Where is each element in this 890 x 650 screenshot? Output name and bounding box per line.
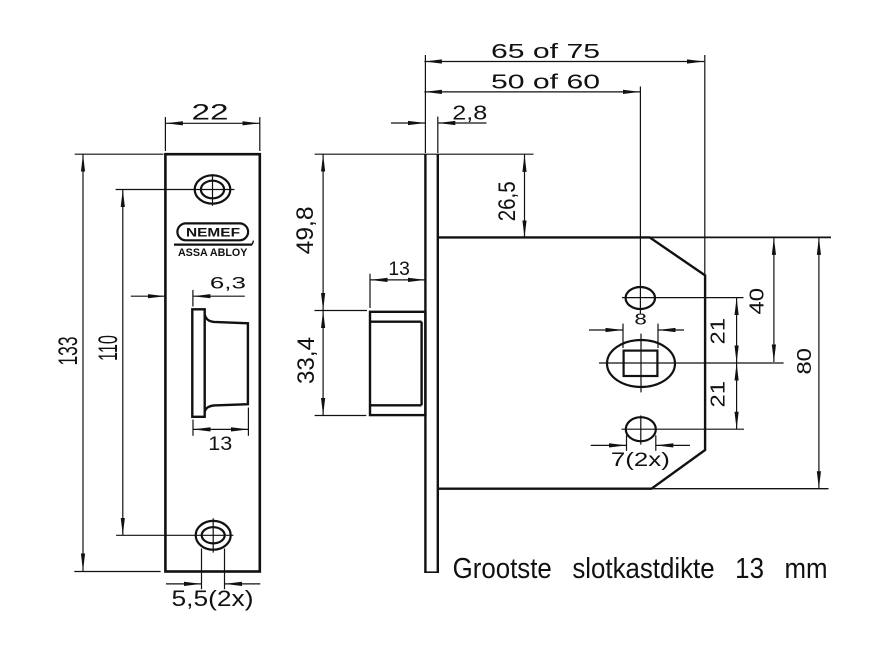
svg-text:13: 13 bbox=[208, 434, 232, 455]
svg-text:5,5(2x): 5,5(2x) bbox=[172, 586, 254, 611]
svg-text:7(2x): 7(2x) bbox=[611, 450, 670, 471]
svg-text:Grootste slotkastdikte 13 mm: Grootste slotkastdikte 13 mm bbox=[453, 553, 828, 585]
svg-text:22: 22 bbox=[192, 100, 229, 125]
svg-text:2,8: 2,8 bbox=[452, 103, 487, 125]
svg-text:80: 80 bbox=[794, 348, 816, 375]
svg-text:13: 13 bbox=[388, 259, 410, 280]
svg-text:133: 133 bbox=[53, 337, 83, 366]
svg-text:49,8: 49,8 bbox=[292, 206, 319, 254]
svg-text:ASSA ABLOY: ASSA ABLOY bbox=[178, 247, 248, 259]
svg-text:26,5: 26,5 bbox=[494, 181, 521, 221]
svg-text:40: 40 bbox=[747, 288, 769, 315]
svg-text:21: 21 bbox=[708, 318, 730, 345]
svg-text:65 of 75: 65 of 75 bbox=[491, 41, 600, 63]
svg-text:NEMEF: NEMEF bbox=[186, 225, 240, 239]
svg-text:6,3: 6,3 bbox=[210, 274, 246, 293]
svg-text:50 of 60: 50 of 60 bbox=[491, 72, 600, 94]
svg-text:8: 8 bbox=[634, 312, 647, 329]
svg-text:21: 21 bbox=[707, 381, 729, 408]
svg-text:110: 110 bbox=[93, 335, 123, 361]
svg-text:33,4: 33,4 bbox=[293, 337, 320, 384]
